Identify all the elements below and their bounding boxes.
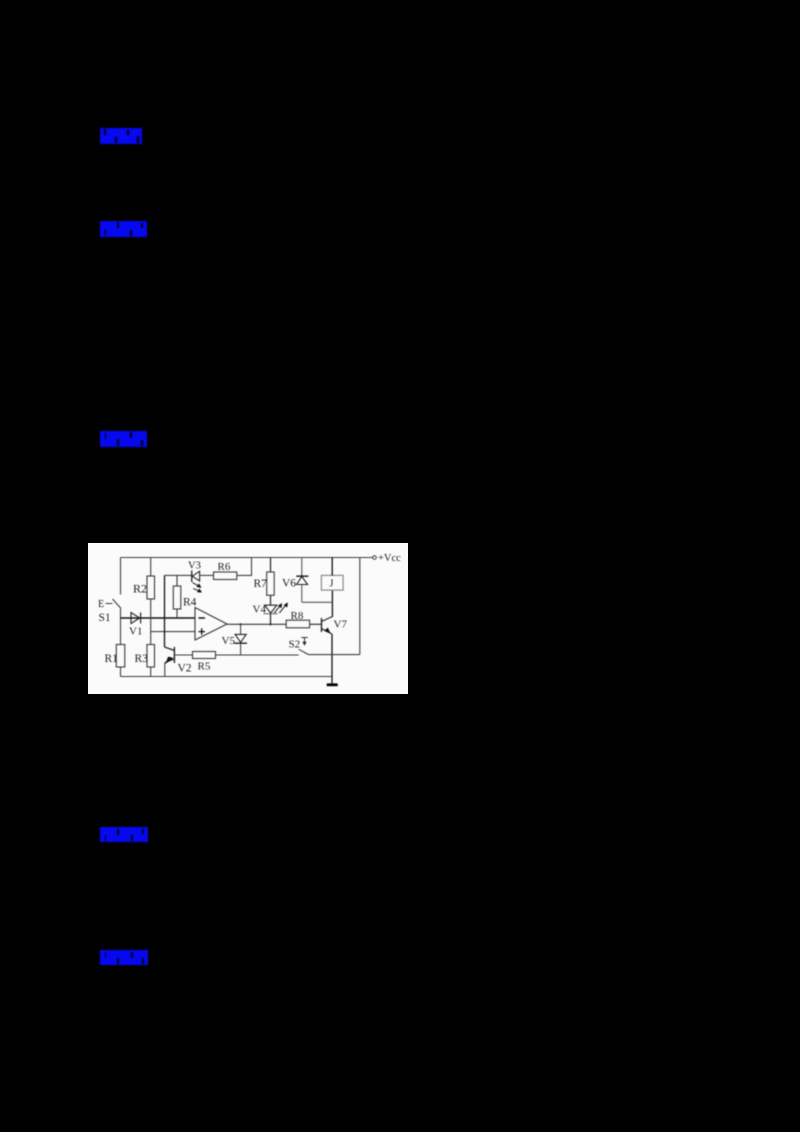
svg-text:V2: V2 (178, 663, 192, 675)
svg-text:S1: S1 (99, 612, 111, 624)
circuit schematic image (88, 543, 408, 694)
wire feedback top line (165, 574, 192, 576)
wire right vertical branch (359, 558, 361, 655)
svg-text:V1: V1 (129, 626, 142, 638)
svg-text:V3: V3 (188, 561, 201, 572)
svg-text:V5: V5 (222, 635, 236, 647)
LED V3 (191, 570, 193, 582)
svg-text:+Vcc: +Vcc (378, 553, 401, 564)
svg-text:V7: V7 (334, 619, 348, 631)
ground (327, 683, 338, 686)
node output junctions (240, 623, 242, 625)
blue section label 4 (jieda) (100, 827, 148, 842)
wire R2/R3 divider branch (150, 558, 152, 677)
op-amp U1 (195, 608, 227, 641)
blue section label 5 (dianping) (100, 950, 148, 965)
blue section label 3 (fenxi) (100, 431, 147, 447)
wire R8 to V7 base (310, 623, 322, 625)
wire top supply rail (121, 557, 373, 559)
relay J (321, 575, 343, 590)
wire R6 to top rail (237, 558, 252, 576)
wire relay to top rail (331, 558, 333, 576)
wire op-amp output line (227, 623, 286, 625)
resistor R6 (214, 572, 237, 580)
resistor R7 (267, 572, 275, 595)
svg-text:V4: V4 (253, 604, 267, 616)
wire V2 collector riser (164, 575, 166, 647)
zener V5 (240, 624, 242, 634)
blue section label 1 (kaodian) (100, 128, 142, 144)
resistor R8 (286, 620, 309, 628)
blue section label 2 (zhuanti) (100, 221, 147, 237)
svg-text:S2: S2 (289, 639, 301, 651)
switch S1 blade (113, 599, 122, 609)
wire non-inverting input line (151, 631, 195, 633)
resistor R3 (147, 645, 155, 668)
LED V3 emission arrows (193, 583, 200, 587)
LED V4 emission arrows (274, 606, 280, 613)
wire R7 to V4 (270, 595, 272, 605)
resistor R4 (176, 575, 178, 618)
wire R5 to S2 terminal (216, 654, 299, 656)
wire left branch upper (120, 558, 122, 595)
wire bottom rail (121, 676, 333, 678)
transistor V2 (165, 647, 175, 651)
resistor R1 (116, 645, 125, 668)
svg-text:R7: R7 (254, 578, 268, 590)
resistor R2 (147, 576, 155, 599)
wire left branch lower (120, 609, 122, 645)
transistor V7 (321, 618, 323, 632)
switch S2 blade (299, 649, 309, 654)
diode V1 (131, 613, 140, 624)
wire main inverting-input line (121, 617, 196, 619)
wire V6 to collector node (302, 601, 333, 603)
wire V7 emitter to ground (331, 634, 333, 685)
svg-text:R8: R8 (291, 610, 304, 622)
svg-text:R2: R2 (133, 582, 147, 596)
node V6 cathode junction (301, 575, 303, 577)
LED V4 (265, 605, 277, 613)
node +Vcc terminal (373, 556, 377, 560)
wire V2 base to R5 (174, 654, 192, 656)
svg-text:E: E (98, 599, 104, 610)
wire V3 to R6 (200, 574, 214, 576)
svg-text:R5: R5 (198, 661, 211, 673)
svg-text:R3: R3 (135, 653, 149, 665)
zener V6 (301, 558, 303, 576)
wire R1 to bottom rail (120, 667, 122, 677)
svg-text:V6: V6 (282, 578, 296, 590)
wire R7 branch (270, 558, 272, 573)
wire S2 to right branch (309, 654, 360, 656)
svg-text:R1: R1 (105, 653, 119, 665)
resistor R5 (193, 652, 216, 659)
svg-text:R6: R6 (218, 561, 231, 573)
svg-text:J: J (330, 579, 334, 590)
wire V7 collector to relay (331, 590, 333, 617)
